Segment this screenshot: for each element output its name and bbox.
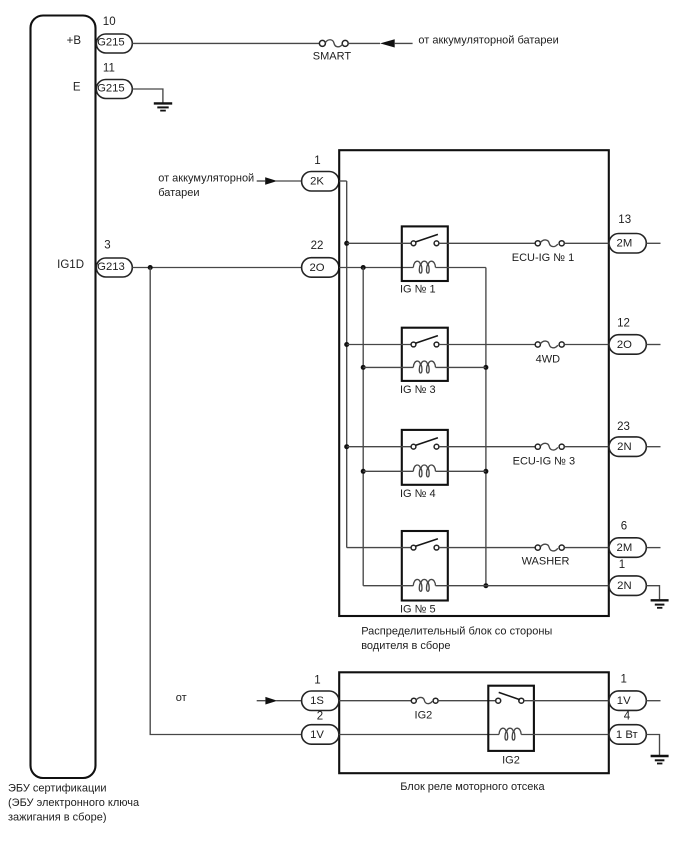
svg-text:1: 1: [314, 155, 320, 167]
bus C (coil return) vertical: [485, 268, 487, 586]
bus A (ignition feed) vertical: [346, 181, 348, 548]
svg-text:4WD: 4WD: [536, 353, 561, 365]
wire arrow to 2K oval: [276, 180, 302, 182]
wire IG1D branch down to 1V row: [150, 268, 301, 735]
node bus A / relay4 switch: [344, 444, 349, 449]
wire G213 to 2O with junction: [132, 267, 301, 269]
wire stub 1V: [646, 700, 660, 702]
svg-text:3: 3: [104, 240, 110, 252]
svg-text:1: 1: [619, 559, 625, 571]
relay IG2: [488, 686, 609, 767]
connector 1V pin 2: [302, 725, 339, 745]
svg-text:1S: 1S: [310, 695, 324, 707]
wire 2N to ground: [646, 586, 659, 600]
relay IG No1: [347, 226, 536, 295]
wire +B row to SMART fuse: [132, 42, 319, 44]
svg-text:1 Вт: 1 Вт: [616, 729, 638, 741]
wire arrow tail: [395, 42, 413, 44]
connector G215 pin 10: [96, 34, 132, 53]
wire E row to ground: [132, 89, 163, 103]
node bus B / relay3 coil: [361, 365, 366, 370]
relay IG No3: [347, 328, 536, 396]
wire fuse to 2N: [564, 446, 609, 448]
relay IG No5: [347, 531, 609, 615]
connector 2N pin 23: [609, 437, 646, 457]
fuse WASHER: [522, 544, 570, 567]
node bus A / relay1 switch: [344, 241, 349, 246]
node bus C / relay5 coil: [483, 583, 488, 588]
wire fuse to relay IG2 switch: [438, 700, 495, 702]
node bus A / relay3 switch: [344, 342, 349, 347]
svg-text:от: от: [176, 692, 187, 704]
svg-text:2O: 2O: [617, 339, 632, 351]
svg-text:IG1D: IG1D: [57, 259, 84, 271]
svg-text:IG № 3: IG № 3: [400, 384, 436, 396]
distribution box (driver side junction block): [339, 150, 609, 616]
node bus C / relay4 coil: [483, 469, 488, 474]
connector 2M pin 6: [609, 538, 646, 558]
wire 2O into box to relay1 coil: [339, 267, 413, 269]
arrowhead (points right) into 2K: [265, 177, 277, 185]
svg-text:12: 12: [617, 317, 630, 329]
svg-text:2K: 2K: [310, 176, 324, 188]
svg-text:ECU-IG № 1: ECU-IG № 1: [512, 252, 575, 264]
connector 1V pin 1 (right): [609, 691, 646, 711]
svg-text:2N: 2N: [617, 580, 631, 592]
svg-text:6: 6: [621, 521, 627, 533]
svg-text:+B: +B: [67, 35, 82, 47]
relay IG No4: [347, 430, 536, 500]
svg-text:G215: G215: [97, 83, 125, 95]
wire stub 2O: [646, 344, 660, 346]
arrowhead (points right) into 1S: [265, 697, 277, 705]
svg-text:4: 4: [624, 710, 631, 722]
svg-text:2: 2: [317, 711, 323, 723]
svg-text:1: 1: [620, 673, 626, 685]
svg-text:от аккумуляторной батареи: от аккумуляторной батареи: [418, 35, 558, 47]
svg-text:2N: 2N: [617, 441, 631, 453]
svg-text:WASHER: WASHER: [522, 556, 570, 568]
wire stub 2M pin 6: [646, 547, 660, 549]
node bus B / coil feed: [361, 265, 366, 270]
engine room relay box: [339, 672, 609, 773]
svg-text:IG2: IG2: [415, 709, 433, 721]
fuse SMART: [313, 40, 352, 63]
bus B (coil feed) vertical: [362, 268, 364, 586]
ground (2N pin 1): [651, 600, 669, 608]
fuse ECU-IG No1: [512, 240, 575, 264]
connector 2O pin 22: [302, 258, 339, 278]
arrowhead (points left) from battery: [380, 39, 395, 47]
wire fuse to 2M: [564, 242, 609, 244]
svg-text:13: 13: [618, 214, 631, 226]
node bus B / relay4 coil: [361, 469, 366, 474]
connector 2N pin 1: [609, 576, 646, 596]
wire 1Vt to ground: [646, 735, 659, 756]
svg-text:2M: 2M: [617, 238, 633, 250]
ECU box (certification ECU): [31, 16, 96, 779]
wire fuse to 2M: [564, 547, 609, 549]
wire 1V to relay IG2 coil: [339, 734, 499, 736]
svg-text:2M: 2M: [617, 542, 633, 554]
svg-text:1V: 1V: [310, 729, 324, 741]
svg-text:1V: 1V: [617, 695, 631, 707]
wire stub 2M: [646, 242, 660, 244]
wire stub 2N: [646, 446, 660, 448]
svg-text:IG № 4: IG № 4: [400, 488, 436, 500]
svg-text:2O: 2O: [309, 262, 324, 274]
wire to 1S arrow: [257, 700, 266, 702]
wire 2K into box to bus A: [339, 180, 347, 182]
svg-text:IG № 1: IG № 1: [400, 283, 436, 295]
junction node IG1D branch: [148, 265, 153, 270]
connector 2M pin 13: [609, 234, 646, 254]
fuse IG2: [411, 697, 438, 721]
node bus C / relay3 coil: [483, 365, 488, 370]
ground (E pin): [154, 103, 172, 110]
wire fuse to arrow: [348, 42, 380, 44]
svg-text:SMART: SMART: [313, 50, 352, 62]
fuse 4WD: [535, 341, 564, 365]
wire to 2K arrow: [257, 180, 266, 182]
svg-text:23: 23: [617, 421, 630, 433]
svg-text:11: 11: [103, 63, 115, 75]
svg-text:IG2: IG2: [502, 755, 520, 767]
svg-text:10: 10: [103, 16, 116, 28]
ground (1Vt pin 4): [651, 756, 669, 764]
svg-text:G215: G215: [97, 37, 125, 49]
svg-text:IG № 5: IG № 5: [400, 603, 436, 615]
wire fuse to 2O: [564, 344, 609, 346]
svg-text:E: E: [73, 82, 81, 94]
wire arrow to 1S oval: [276, 700, 301, 702]
connector 1S pin 1: [302, 691, 339, 711]
svg-text:Блок реле моторного отсека: Блок реле моторного отсека: [400, 781, 545, 793]
connector 1Vt pin 4: [609, 725, 646, 745]
fuse ECU-IG No3: [513, 443, 576, 467]
svg-text:1: 1: [314, 674, 320, 686]
connector 2O pin 12: [609, 335, 646, 355]
svg-text:ECU-IG № 3: ECU-IG № 3: [513, 456, 576, 468]
svg-text:G213: G213: [97, 261, 125, 273]
connector G215 pin 11: [96, 80, 132, 99]
wire 1S to fuse IG2: [339, 700, 411, 702]
connector G213 pin 3: [96, 258, 132, 277]
connector 2K pin 1: [302, 172, 339, 192]
svg-text:22: 22: [311, 240, 324, 252]
